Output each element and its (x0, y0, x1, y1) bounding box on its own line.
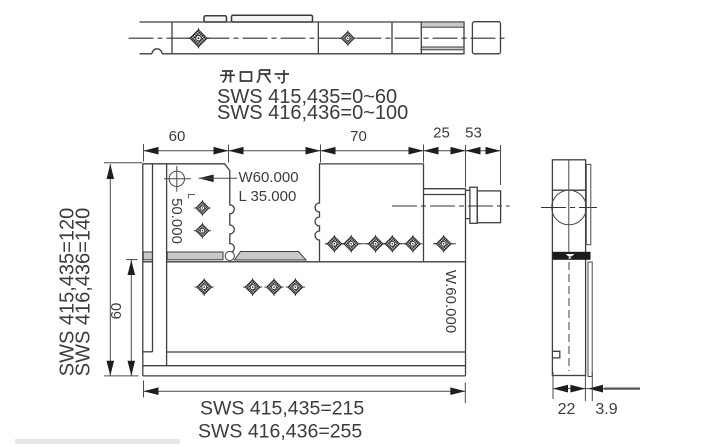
movable jaw outline (315, 164, 424, 261)
svg-text:L: L (185, 193, 196, 199)
step lines (424, 189, 466, 195)
ext line mov-jaw-right (423, 145, 425, 163)
top view diamond marker 1 (187, 28, 209, 48)
jaw diamond 2 (194, 223, 211, 239)
bottom ext right (464, 383, 466, 404)
inner 60 dim line (130, 260, 132, 376)
svg-text:SWS 416,436=140: SWS 416,436=140 (73, 208, 95, 376)
CJK 开 (220, 70, 289, 83)
right column edge (465, 189, 467, 376)
bottom ext left (143, 381, 145, 398)
arrowheads top chain (144, 147, 159, 155)
body top edge + chamfer (143, 164, 230, 171)
side black band (552, 252, 590, 260)
rail line 2 (143, 365, 466, 367)
gib strip main part (167, 252, 223, 260)
svg-text:W.60.000: W.60.000 (442, 270, 459, 333)
row diamond 3 (366, 235, 385, 253)
left column line 2 (152, 164, 154, 352)
row diamond 1 (325, 235, 344, 253)
inner ext tick (126, 259, 138, 261)
side vertical centerline bottom dashed (568, 262, 570, 371)
jaw row line (326, 243, 420, 245)
division line 3 (391, 22, 393, 54)
svg-text:L 35.000: L 35.000 (239, 188, 297, 205)
base lone diamond (195, 278, 214, 296)
lone diamond line (433, 243, 456, 245)
outer height dim line (109, 164, 111, 376)
end square (472, 22, 500, 54)
top view diamond marker 2 (339, 30, 356, 46)
screw flange (470, 187, 477, 223)
row diamond 5 (403, 235, 422, 253)
side body outline (552, 160, 585, 376)
rail line 1 (167, 351, 466, 353)
svg-text:3.9: 3.9 (595, 401, 617, 418)
fixed jaw right edge with scallops (230, 171, 235, 253)
outer ext bottom (104, 375, 139, 377)
svg-text:70: 70 (350, 128, 367, 145)
faint cropped text smudge bottom-left (15, 439, 180, 444)
division line 2 (317, 22, 319, 54)
W60 leader arrow (199, 175, 214, 183)
left col bottom step (143, 351, 153, 353)
small tab (204, 16, 227, 22)
base cluster diamond 3 (286, 278, 305, 296)
body bottom edge (143, 375, 466, 377)
long tab (232, 15, 313, 22)
side notch bottom-left (552, 351, 559, 358)
svg-text:50.000: 50.000 (168, 198, 185, 244)
side circle (552, 190, 587, 225)
band white mark (566, 254, 575, 257)
ext line mov-jaw-left (320, 145, 322, 163)
svg-text:W60.000: W60.000 (239, 169, 299, 186)
wedge strip (235, 252, 307, 261)
base top line (143, 261, 466, 263)
svg-text:60: 60 (108, 303, 125, 320)
lone diamond (434, 235, 453, 253)
ext line jaw-right (228, 145, 230, 163)
row diamond 2 (342, 235, 361, 253)
CJK 寸 (275, 70, 290, 83)
bracket bottom strip (421, 47, 464, 50)
ext line knob-right (500, 145, 502, 185)
svg-text:SWS 416,436=0~100: SWS 416,436=0~100 (217, 102, 408, 124)
notch arc bottom-left (152, 49, 162, 54)
CJK 尺 (257, 70, 271, 83)
side lower plate (588, 262, 592, 377)
division line 4 (420, 22, 422, 54)
svg-text:60: 60 (169, 128, 186, 145)
screw neck (466, 190, 470, 218)
row diamond 4 (383, 235, 402, 253)
side crosshair horizontal (541, 207, 597, 209)
side top inner line (552, 189, 585, 191)
base cluster diamond 1 (243, 278, 262, 296)
svg-text:SWS 416,436=255: SWS 416,436=255 (198, 421, 362, 443)
dim chain line (144, 150, 501, 152)
side upper plate (586, 164, 591, 244)
top view body bar (140, 22, 465, 54)
left column line 3 / fixed jaw left edge (166, 164, 168, 366)
jaw diamond 1 (194, 200, 211, 216)
side ext lines (553, 370, 592, 401)
jaw corner scallop (225, 251, 234, 260)
side dim line (553, 388, 604, 390)
division line 1 (171, 22, 173, 54)
gib strip left part (143, 252, 152, 260)
side vertical centerline top (568, 160, 570, 251)
base cluster diamond 2 (264, 278, 283, 296)
ext line 60-left (143, 144, 145, 162)
outer ext top (104, 162, 143, 164)
screw knob (477, 191, 500, 223)
marker circle (169, 171, 184, 186)
svg-text:53: 53 (465, 125, 482, 142)
left column line 1 (142, 164, 144, 376)
svg-text:25: 25 (433, 125, 450, 142)
svg-text:SWS 415,435=215: SWS 415,435=215 (200, 398, 364, 420)
bracket top strip (421, 22, 464, 27)
CJK 口 (241, 72, 252, 81)
bottom dim line (144, 390, 466, 392)
top view centerline (129, 37, 508, 39)
svg-text:22: 22 (558, 401, 576, 418)
ext line body-right (465, 145, 467, 188)
shaft centerline (392, 205, 510, 207)
